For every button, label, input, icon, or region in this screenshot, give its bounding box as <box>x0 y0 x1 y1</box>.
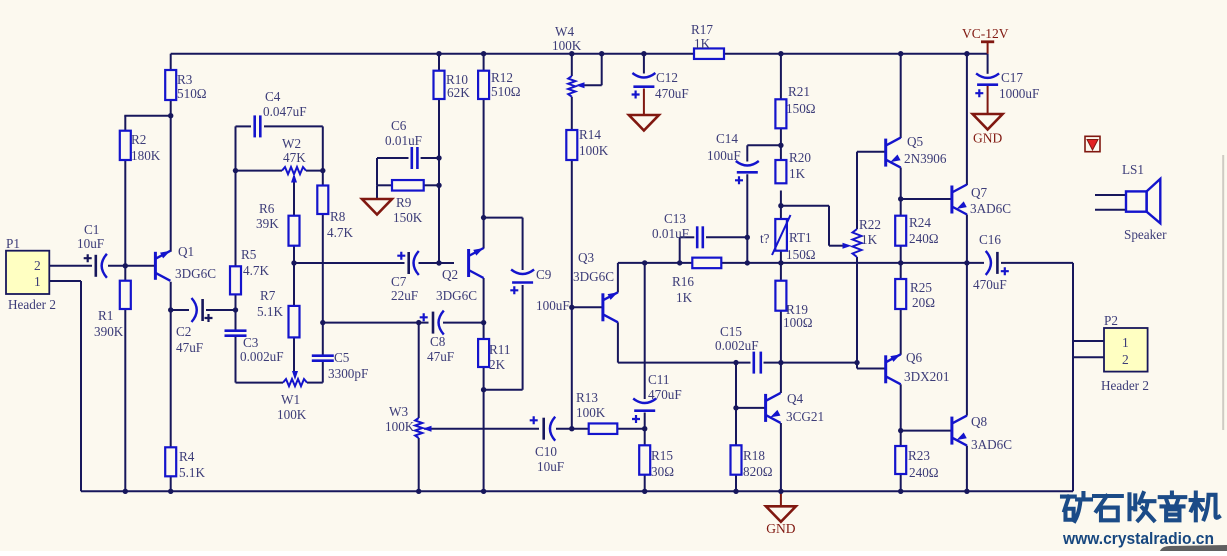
svg-text:RT1: RT1 <box>789 230 812 245</box>
svg-text:R7: R7 <box>260 288 276 303</box>
svg-text:R24: R24 <box>909 215 931 230</box>
svg-text:C11: C11 <box>648 372 670 387</box>
svg-text:R23: R23 <box>908 448 930 463</box>
svg-text:P1: P1 <box>6 236 20 251</box>
svg-text:Q4: Q4 <box>787 391 804 406</box>
svg-text:Q5: Q5 <box>907 134 924 149</box>
svg-text:470uF: 470uF <box>655 86 689 101</box>
svg-text:GND: GND <box>973 131 1002 146</box>
svg-text:t?: t? <box>760 231 770 246</box>
svg-text:5.1K: 5.1K <box>257 304 283 319</box>
svg-text:C12: C12 <box>656 70 678 85</box>
svg-text:2N3906: 2N3906 <box>904 151 947 166</box>
svg-text:R15: R15 <box>651 448 673 463</box>
svg-text:0.01uF: 0.01uF <box>652 226 689 241</box>
svg-text:Q7: Q7 <box>971 185 988 200</box>
svg-text:W4: W4 <box>555 24 574 39</box>
svg-text:390K: 390K <box>94 324 124 339</box>
svg-text:C8: C8 <box>430 334 446 349</box>
svg-text:150Ω: 150Ω <box>786 101 816 116</box>
svg-text:100K: 100K <box>576 405 606 420</box>
svg-text:1K: 1K <box>676 290 693 305</box>
svg-text:4.7K: 4.7K <box>327 225 353 240</box>
svg-text:22uF: 22uF <box>391 288 418 303</box>
svg-text:Q6: Q6 <box>906 350 923 365</box>
svg-text:3AD6C: 3AD6C <box>971 437 1012 452</box>
svg-text:30Ω: 30Ω <box>651 464 674 479</box>
svg-text:R3: R3 <box>177 72 193 87</box>
svg-text:2: 2 <box>1122 352 1129 367</box>
svg-text:47uF: 47uF <box>176 340 203 355</box>
svg-text:1000uF: 1000uF <box>999 86 1039 101</box>
svg-text:4.7K: 4.7K <box>243 263 269 278</box>
svg-text:C7: C7 <box>391 274 407 289</box>
svg-text:R5: R5 <box>241 247 257 262</box>
svg-text:R1: R1 <box>98 308 113 323</box>
svg-text:R12: R12 <box>491 70 513 85</box>
svg-text:R22: R22 <box>859 217 881 232</box>
svg-text:Header 2: Header 2 <box>8 297 56 312</box>
svg-text:100uF: 100uF <box>536 298 570 313</box>
svg-text:C17: C17 <box>1001 70 1023 85</box>
svg-text:Speaker: Speaker <box>1124 227 1167 242</box>
svg-text:Header 2: Header 2 <box>1101 378 1149 393</box>
svg-text:1K: 1K <box>789 166 806 181</box>
svg-text:0.002uF: 0.002uF <box>240 349 284 364</box>
svg-text:3AD6C: 3AD6C <box>970 201 1011 216</box>
svg-text:1K: 1K <box>694 36 711 51</box>
svg-text:www.crystalradio.cn: www.crystalradio.cn <box>1062 529 1214 548</box>
svg-text:Q1: Q1 <box>178 244 194 259</box>
svg-text:0.047uF: 0.047uF <box>263 104 307 119</box>
svg-text:R8: R8 <box>330 209 346 224</box>
svg-text:510Ω: 510Ω <box>491 84 521 99</box>
svg-text:0.01uF: 0.01uF <box>385 133 422 148</box>
svg-text:C5: C5 <box>334 350 350 365</box>
svg-text:C16: C16 <box>979 232 1001 247</box>
svg-text:R20: R20 <box>789 150 811 165</box>
svg-text:470uF: 470uF <box>648 387 682 402</box>
svg-text:3CG21: 3CG21 <box>786 409 824 424</box>
svg-text:Q2: Q2 <box>442 267 458 282</box>
svg-text:R2: R2 <box>131 132 146 147</box>
svg-text:W3: W3 <box>389 404 408 419</box>
svg-text:Q3: Q3 <box>578 250 595 265</box>
svg-text:C4: C4 <box>265 89 281 104</box>
svg-text:0.002uF: 0.002uF <box>715 338 759 353</box>
svg-text:100K: 100K <box>385 419 415 434</box>
svg-text:3DG6C: 3DG6C <box>436 288 477 303</box>
svg-text:100K: 100K <box>552 38 582 53</box>
svg-text:10uF: 10uF <box>537 459 564 474</box>
svg-text:150K: 150K <box>393 210 423 225</box>
svg-text:C2: C2 <box>176 324 191 339</box>
svg-text:C9: C9 <box>536 267 552 282</box>
svg-text:470uF: 470uF <box>973 277 1007 292</box>
svg-text:R16: R16 <box>672 274 694 289</box>
svg-text:W1: W1 <box>281 392 300 407</box>
svg-text:C13: C13 <box>664 211 686 226</box>
svg-text:820Ω: 820Ω <box>743 464 773 479</box>
svg-text:W2: W2 <box>282 136 301 151</box>
svg-text:Q8: Q8 <box>971 414 988 429</box>
svg-text:C1: C1 <box>84 222 99 237</box>
svg-text:R9: R9 <box>396 195 412 210</box>
svg-text:47K: 47K <box>283 150 306 165</box>
svg-text:P2: P2 <box>1104 313 1118 328</box>
svg-text:R25: R25 <box>910 280 932 295</box>
svg-text:R4: R4 <box>179 449 195 464</box>
svg-text:3DX201: 3DX201 <box>904 369 949 384</box>
svg-text:100K: 100K <box>277 407 307 422</box>
svg-text:5.1K: 5.1K <box>179 465 205 480</box>
svg-text:1K: 1K <box>861 232 878 247</box>
svg-text:10uF: 10uF <box>77 236 104 251</box>
svg-text:510Ω: 510Ω <box>177 86 207 101</box>
svg-text:3300pF: 3300pF <box>328 366 368 381</box>
svg-text:R6: R6 <box>259 201 275 216</box>
svg-text:180K: 180K <box>131 148 161 163</box>
svg-text:62K: 62K <box>447 85 470 100</box>
svg-text:C15: C15 <box>720 324 742 339</box>
svg-text:R18: R18 <box>743 448 765 463</box>
svg-text:VC-12V: VC-12V <box>962 26 1009 41</box>
svg-text:C10: C10 <box>535 444 557 459</box>
svg-text:GND: GND <box>766 521 795 536</box>
svg-text:3DG6C: 3DG6C <box>175 266 216 281</box>
svg-text:240Ω: 240Ω <box>909 465 939 480</box>
svg-text:C6: C6 <box>391 118 407 133</box>
svg-text:47uF: 47uF <box>427 349 454 364</box>
svg-text:3DG6C: 3DG6C <box>573 269 614 284</box>
svg-text:R21: R21 <box>788 84 810 99</box>
svg-text:100Ω: 100Ω <box>783 315 813 330</box>
svg-text:R13: R13 <box>576 390 598 405</box>
svg-text:240Ω: 240Ω <box>909 231 939 246</box>
svg-text:2K: 2K <box>489 357 506 372</box>
svg-text:R17: R17 <box>691 22 713 37</box>
svg-text:1: 1 <box>1122 335 1129 350</box>
svg-text:C14: C14 <box>716 131 738 146</box>
svg-text:100uF: 100uF <box>707 148 741 163</box>
svg-text:R14: R14 <box>579 127 601 142</box>
svg-text:2: 2 <box>34 258 41 273</box>
svg-text:R11: R11 <box>489 342 511 357</box>
svg-text:39K: 39K <box>256 216 279 231</box>
svg-text:C3: C3 <box>243 335 259 350</box>
svg-text:100K: 100K <box>579 143 609 158</box>
svg-text:20Ω: 20Ω <box>912 295 935 310</box>
svg-text:LS1: LS1 <box>1122 162 1144 177</box>
svg-text:150Ω: 150Ω <box>786 247 816 262</box>
svg-text:1: 1 <box>34 274 41 289</box>
